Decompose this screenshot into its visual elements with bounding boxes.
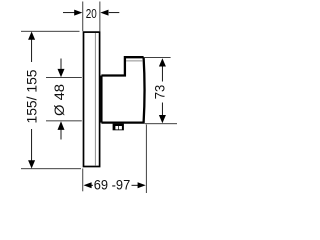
dim 20: left arrow — [74, 10, 82, 16]
stop block window 2 — [119, 126, 122, 129]
dim 155/155: top arrow — [28, 32, 35, 40]
dim 69-97: right line segment — [132, 184, 139, 186]
cap inner seam line — [126, 60, 143, 62]
dim ø48: upper arrow (points down) — [58, 69, 65, 77]
dim 69-97: left arrow (points left) — [84, 182, 92, 188]
dim ø48: top extension line — [46, 77, 82, 79]
dim 155/155: bottom arrow — [28, 160, 35, 168]
stop block window 1 — [115, 126, 118, 129]
dim ø48: lower arrow (points up) — [58, 121, 65, 130]
dim 20: left tail — [63, 12, 75, 14]
dim 155/155: bottom extension line — [21, 168, 81, 170]
dim 69-97: right extension line — [145, 125, 147, 194]
dim 155/155: top extension line — [21, 30, 80, 32]
dim 69-97: left extension line — [82, 169, 84, 192]
bottom stop block — [113, 124, 124, 131]
dim 69-97: right arrow (points right) — [138, 182, 146, 188]
svg-text:Ø 48: Ø 48 — [51, 84, 67, 116]
dim 20: right arrow — [100, 10, 108, 16]
dim 73: bottom arrow (points down) — [159, 115, 166, 123]
svg-text:155/ 155: 155/ 155 — [23, 69, 39, 123]
dim 155/155: line upper segment — [31, 39, 33, 62]
dim ø48: bottom extension line — [46, 120, 82, 122]
dim 155/155: line lower segment — [31, 129, 33, 161]
dim 73: top extension line — [145, 56, 171, 58]
plate inner seam line — [94, 33, 96, 166]
dim 20: right tail — [109, 12, 120, 14]
wall plate (escutcheon, side view) — [84, 32, 100, 166]
dim 20: left extension line — [82, 2, 84, 32]
dim ø48: lower line segment — [60, 129, 62, 139]
valve body outline — [101, 57, 144, 122]
dim ø48: upper line segment — [60, 59, 62, 70]
dim 73: lower line segment — [161, 103, 163, 117]
dim 73: top arrow (points up) — [159, 58, 166, 66]
dim 20: right extension line — [99, 2, 101, 32]
svg-text:69 -97: 69 -97 — [94, 176, 131, 192]
dim 73: bottom extension line — [145, 123, 177, 125]
svg-text:73: 73 — [152, 85, 168, 100]
svg-text:20: 20 — [86, 6, 97, 21]
dim 73: upper line segment — [161, 66, 163, 82]
dim 69-97: left line segment — [91, 184, 93, 186]
